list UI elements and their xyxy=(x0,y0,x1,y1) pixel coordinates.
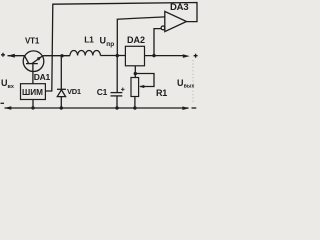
svg-text:C1: C1 xyxy=(97,87,108,97)
label C1 xyxy=(97,87,108,97)
label R1 xyxy=(156,88,167,98)
capacitor C1 xyxy=(111,56,125,109)
wire: DA1 bottom lead to bottom rail xyxy=(32,100,34,109)
svg-text:U: U xyxy=(100,36,107,46)
svg-text:DA2: DA2 xyxy=(127,35,145,45)
label VT1 xyxy=(25,37,40,46)
label U_pr xyxy=(100,36,115,48)
op-amp DA3 xyxy=(161,11,186,31)
label DA2 xyxy=(127,35,145,45)
svg-text:вых: вых xyxy=(184,84,195,90)
svg-text:пр: пр xyxy=(106,41,114,48)
wire: R1 bottom lead xyxy=(134,97,136,109)
svg-text:DA3: DA3 xyxy=(170,2,188,13)
wire: feedback from output node to DA3 inverting input xyxy=(154,29,161,56)
terminal - (input, bottom-left) xyxy=(1,102,5,104)
svg-text:L1: L1 xyxy=(84,35,94,45)
wire: R1 wiper link xyxy=(135,74,154,87)
label VD1 xyxy=(67,87,81,96)
svg-text:DA1: DA1 xyxy=(34,72,51,82)
wire: VT1 base lead down to DA1 xyxy=(32,64,34,84)
bottom-left arrow (pointing left) xyxy=(4,106,11,110)
R1 wiper arrow xyxy=(139,85,144,88)
wire: DA2 bottom pin to R1 xyxy=(134,66,136,78)
node: R1 bottom junction xyxy=(133,106,136,109)
label L1 xyxy=(84,35,94,45)
label U_out xyxy=(177,78,194,90)
wire: DA1 control input from feedback rail xyxy=(45,3,197,92)
wire: L1 to DA2 xyxy=(100,55,125,57)
inductor L1 xyxy=(70,50,100,55)
svg-text:VT1: VT1 xyxy=(25,37,40,46)
label ШИМ xyxy=(22,88,43,97)
IC DA2 box xyxy=(125,46,144,66)
node: output junction xyxy=(152,54,155,57)
svg-text:ШИМ: ШИМ xyxy=(22,88,43,97)
diode VD1 xyxy=(57,89,66,96)
node: DA1 bottom rail junction xyxy=(31,106,34,109)
wire: input to VT1 emitter xyxy=(8,55,25,57)
node: VD1 top junction xyxy=(60,54,63,57)
input arrow (left, pointing left) xyxy=(8,54,15,58)
node: switch-node sense junction xyxy=(116,54,119,57)
node: VD1 bottom junction xyxy=(60,106,63,109)
svg-text:R1: R1 xyxy=(156,88,167,98)
wire: VD1 cathode lead xyxy=(60,56,62,90)
svg-text:U: U xyxy=(177,78,184,88)
node: C1 bottom junction xyxy=(115,106,118,109)
terminal + (input, top-left) xyxy=(1,53,5,57)
terminal + (output, top-right) xyxy=(194,54,198,58)
label DA3 xyxy=(170,2,188,13)
scan artifact: faint dotted crease xyxy=(192,60,194,103)
bottom-right arrow (pointing right) xyxy=(182,106,189,110)
wire: VD1 anode lead to bottom rail xyxy=(60,97,62,108)
svg-text:VD1: VD1 xyxy=(67,87,81,96)
wire: DA2 output to terminal xyxy=(145,55,184,57)
label DA1 xyxy=(34,72,51,82)
terminal - (output, bottom-right) xyxy=(192,107,197,109)
wire: VT1 collector to L1 xyxy=(42,55,70,57)
transistor VT1 xyxy=(23,51,44,72)
wire: sense line up to DA3 input xyxy=(117,17,165,56)
resistor R1 (potentiometer) xyxy=(131,78,139,97)
svg-text:вх: вх xyxy=(8,84,15,90)
label U_in xyxy=(1,78,15,90)
IC DA1 (PWM box) xyxy=(21,84,46,100)
wire: bottom rail xyxy=(5,107,189,109)
node: R1 top junction xyxy=(134,72,137,75)
output arrow (right) xyxy=(183,54,190,58)
